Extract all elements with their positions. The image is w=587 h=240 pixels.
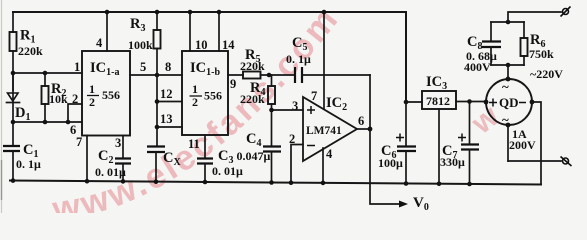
svg-text:3: 3 [115, 136, 121, 150]
svg-text:0. 01μ: 0. 01μ [212, 164, 243, 178]
svg-text:0. 1μ: 0. 1μ [16, 157, 41, 171]
svg-text:220k: 220k [240, 92, 265, 106]
svg-text:10k: 10k [49, 92, 68, 106]
svg-text:2: 2 [72, 92, 78, 106]
bridge rectifier QD [486, 79, 532, 125]
svg-text:LM741: LM741 [306, 125, 342, 137]
wire pin2 of op-amp to ground [291, 145, 303, 183]
svg-text:400V: 400V [464, 60, 491, 74]
wire pins 12/13 rail [156, 75, 158, 127]
svg-text:220k: 220k [240, 59, 265, 73]
capacitor C1 [3, 146, 20, 151]
wire QD right to ground rail [532, 102, 541, 185]
resistor R3 [156, 12, 158, 30]
node dot [155, 73, 160, 78]
scan page left edge [1, 0, 3, 213]
plug terminal bottom [563, 158, 569, 164]
pin 4 [322, 148, 324, 183]
svg-text:9: 9 [230, 77, 236, 91]
svg-text:10: 10 [195, 38, 208, 52]
capacitor CX [156, 127, 158, 146]
svg-text:200V: 200V [509, 138, 536, 152]
svg-text:0. 1μ: 0. 1μ [286, 52, 311, 66]
resistor R4 [271, 75, 273, 86]
svg-text:12: 12 [160, 87, 173, 101]
svg-text:13: 13 [160, 112, 173, 126]
svg-text:7: 7 [311, 89, 317, 103]
resistor R5 [243, 72, 261, 79]
wire output V0 [370, 129, 402, 204]
svg-text:14: 14 [222, 38, 235, 52]
svg-text:556: 556 [204, 89, 222, 103]
svg-text:1: 1 [192, 82, 198, 96]
svg-text:1: 1 [89, 82, 95, 96]
node dot [43, 120, 48, 125]
pin 11 [204, 135, 206, 158]
svg-text:2: 2 [89, 95, 95, 109]
diode D1 [8, 93, 19, 101]
watermark fragment right [464, 98, 506, 142]
pin 4 [106, 12, 108, 51]
op-amp IC2 LM741 [303, 97, 357, 161]
svg-text:4: 4 [96, 36, 103, 50]
svg-text:2: 2 [192, 95, 198, 109]
wire QD bottom [507, 125, 509, 161]
capacitor C5 (series) [295, 67, 302, 83]
AC line bottom [508, 160, 561, 162]
wire pins 2/6 node (y=122) [13, 121, 82, 123]
capacitor C2 [115, 159, 131, 164]
svg-text:556: 556 [102, 88, 120, 102]
wire pin3 node [272, 109, 304, 111]
node dot [43, 71, 48, 76]
capacitor C8 / resistor R6 loop [491, 21, 524, 23]
pin 9 [228, 74, 243, 76]
timer IC1-b (1/2 556) [182, 51, 228, 135]
node dot [11, 120, 16, 125]
plug terminal top [563, 9, 569, 15]
wire feedback down to output [369, 75, 371, 129]
svg-text:~220V: ~220V [530, 67, 563, 81]
pin 10 [189, 12, 191, 51]
wire pin1 node (y=73) [13, 72, 82, 74]
wire QD top [507, 65, 509, 79]
resistor R2 [44, 73, 46, 86]
svg-text:4: 4 [326, 147, 333, 161]
svg-text:5: 5 [140, 60, 146, 74]
svg-text:100μ: 100μ [378, 156, 403, 170]
wire 7812 output to rail [406, 101, 422, 103]
capacitor C3 [197, 159, 213, 164]
bottom ground rail [10, 181, 541, 185]
svg-text:8: 8 [165, 60, 171, 74]
svg-text:750k: 750k [529, 47, 554, 61]
svg-text:6: 6 [358, 114, 364, 128]
svg-text:100k: 100k [128, 38, 153, 52]
wire rail corner down to 7812 output [405, 12, 407, 102]
capacitor C6 [405, 102, 407, 147]
capacitor C8 [482, 42, 501, 48]
resistor R1 [12, 12, 14, 32]
wire pin2 step [68, 104, 82, 122]
AC line top [508, 12, 561, 22]
pin 14 [218, 12, 220, 51]
node dot [11, 71, 16, 76]
wire pin5-pin8 (y=75) [130, 74, 182, 76]
svg-text:220k: 220k [18, 44, 43, 58]
timer IC1-a (1/2 556) [82, 51, 130, 136]
capacitor C7 [469, 102, 471, 145]
resistor R6 [523, 22, 525, 38]
rail node dots [11, 178, 16, 183]
pin 7 to ground [86, 136, 88, 182]
wire 7812 input [456, 101, 486, 103]
pin 3 [122, 136, 124, 159]
wire 7812 ground pin [438, 109, 440, 184]
svg-text:0. 01μ: 0. 01μ [95, 165, 126, 179]
pin 7 supply [323, 12, 325, 109]
top +12V rail [13, 11, 406, 13]
pin 6 output [357, 128, 370, 130]
svg-text:3: 3 [292, 99, 298, 113]
arrowhead [399, 201, 408, 208]
svg-text:7812: 7812 [426, 94, 450, 108]
svg-text:11: 11 [188, 137, 200, 151]
svg-text:1: 1 [74, 60, 80, 74]
svg-text:7: 7 [76, 135, 82, 149]
svg-text:330μ: 330μ [440, 155, 465, 169]
capacitor C4 [263, 147, 281, 152]
svg-text:QD: QD [499, 95, 519, 110]
IC3 7812 [422, 91, 456, 109]
svg-text:2: 2 [289, 132, 295, 146]
node dot [66, 120, 71, 125]
